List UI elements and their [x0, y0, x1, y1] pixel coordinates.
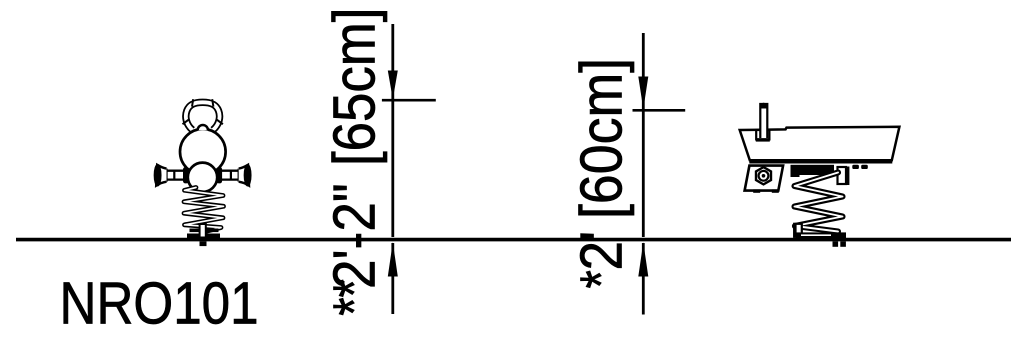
dim1 extension tick	[382, 99, 436, 102]
handle grip tick top-left	[192, 99, 193, 106]
svg-text:2'-2": 2'-2"	[321, 183, 387, 289]
footrest bolt center	[762, 174, 766, 178]
dim2 extension tick	[633, 109, 686, 112]
left horn mid ring	[173, 170, 175, 180]
right horn bell rim	[244, 165, 250, 186]
left horn collar	[183, 167, 189, 183]
seat mount bump right	[861, 165, 868, 169]
footrest foot left	[753, 189, 760, 192]
left horn ring	[165, 169, 167, 182]
handle grip tick bottom-left	[183, 119, 190, 124]
spring top mount right flange bar	[846, 167, 850, 186]
handle socket bottom bar	[756, 138, 770, 141]
footrest plate	[745, 166, 784, 191]
spring top mount right flange	[838, 167, 847, 184]
left horn tube	[167, 170, 185, 172]
footrest bolt hex	[756, 167, 771, 184]
spring bottom left flange bar	[793, 223, 796, 237]
anchor tab left	[833, 241, 839, 246]
handle grip tick bottom-right	[216, 119, 223, 124]
handle grip tick top-right	[212, 99, 213, 106]
spring coil (front rider)	[184, 188, 224, 232]
coil spring (side view)	[795, 173, 843, 232]
dim2 arrow up	[638, 242, 648, 276]
svg-text:NRO101: NRO101	[60, 270, 259, 336]
handle post cap	[760, 103, 768, 109]
spring rider (side view)	[740, 103, 900, 247]
dimension 1: height 2'-2" [65cm]	[382, 24, 436, 314]
seat bottom edge	[749, 160, 892, 163]
spring center post	[200, 224, 206, 238]
spring base plate slot	[801, 234, 831, 236]
dim2 lower tail	[642, 243, 645, 315]
spring base plate lower	[187, 234, 220, 239]
right horn collar	[217, 167, 223, 183]
handle post shaft	[760, 104, 767, 138]
handle loop inner white core	[186, 102, 220, 130]
dim1 arrow down	[388, 71, 398, 100]
svg-text:[65cm]: [65cm]	[321, 8, 387, 166]
anchor tab right	[840, 241, 846, 246]
dimension 2: height 2' [60cm]	[633, 33, 686, 315]
seat mount bump left	[852, 165, 859, 169]
right horn ring	[238, 169, 240, 182]
spring top mount lower lip	[791, 170, 800, 177]
anchor stub below ground	[200, 241, 207, 246]
svg-text:[60cm]: [60cm]	[568, 58, 634, 219]
handle loop outer	[186, 102, 220, 130]
right horn tube	[221, 170, 239, 172]
ground line	[16, 238, 1011, 242]
left horn bell rim	[154, 165, 160, 186]
dim2 vertical line	[642, 33, 645, 237]
knob between loop and head	[198, 125, 208, 130]
svg-text:*: *	[570, 270, 635, 288]
footrest bolt circle	[759, 171, 769, 181]
dim1 lower tail	[391, 243, 394, 314]
right horn bell	[239, 165, 249, 186]
footrest foot right	[772, 189, 779, 192]
svg-text:2': 2'	[568, 231, 634, 271]
left horn bell	[156, 165, 166, 186]
spring top mount band	[791, 165, 835, 171]
dim2 arrow down	[638, 77, 648, 110]
spring bottom left flange	[794, 224, 802, 237]
right horn mid ring	[230, 170, 232, 180]
head circle	[180, 129, 226, 175]
body circle	[188, 163, 217, 192]
handle socket	[756, 130, 769, 139]
dim1 vertical line	[391, 24, 394, 237]
spring base plate	[796, 232, 846, 238]
spring rider NRO101 (front view)	[154, 99, 250, 246]
spring base plate upper	[190, 229, 219, 233]
seat body	[740, 127, 900, 161]
dim1 arrow up	[388, 242, 398, 276]
